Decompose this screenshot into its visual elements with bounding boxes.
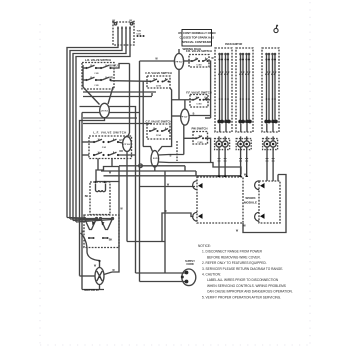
svg-text:CAN CAUSE IMPROPER AND DANGERO: CAN CAUSE IMPROPER AND DANGEROUS OPERATI… <box>207 290 293 294</box>
svg-text:WHEN SERVICING CONTROLS. WIRIN: WHEN SERVICING CONTROLS. WIRING PROBLEMS <box>207 284 286 288</box>
svg-text:C.F. VALVE SWITCH: C.F. VALVE SWITCH <box>145 120 171 124</box>
svg-text:GY: GY <box>119 139 123 142</box>
svg-text:FF VLV: FF VLV <box>181 117 188 119</box>
svg-text:F.F. VALVE SWITCH: F.F. VALVE SWITCH <box>186 90 211 94</box>
svg-text:SPARK: SPARK <box>245 196 256 200</box>
svg-text:W: W <box>211 57 214 60</box>
svg-text:CF VLV: CF VLV <box>124 144 132 146</box>
svg-text:C1 NO: C1 NO <box>196 65 202 67</box>
svg-text:DM: DM <box>98 277 101 279</box>
svg-text:2. REFER ONLY TO FEATURES EQU: 2. REFER ONLY TO FEATURES EQUIPPED. <box>202 261 267 265</box>
svg-text:BEFORE REMOVING WIRE COVER.: BEFORE REMOVING WIRE COVER. <box>207 255 261 259</box>
svg-text:BV: BV <box>113 20 116 22</box>
svg-text:1. DISCONNECT RANGE FROM POWE: 1. DISCONNECT RANGE FROM POWER <box>202 250 263 254</box>
svg-text:C NO: C NO <box>94 73 99 75</box>
svg-text:LR VLV: LR VLV <box>101 111 109 113</box>
svg-text:W: W <box>155 57 158 60</box>
svg-text:RJ: RJ <box>114 65 118 68</box>
svg-text:C.R. VALVE SWITCH: C.R. VALVE SWITCH <box>145 71 172 75</box>
svg-text:W: W <box>120 208 123 211</box>
svg-text:L.F. VALVE SWITCH: L.F. VALVE SWITCH <box>93 131 126 135</box>
svg-text:CORD: CORD <box>186 263 194 266</box>
svg-text:B: B <box>170 155 172 158</box>
svg-text:C1 NO: C1 NO <box>197 142 203 144</box>
svg-text:3. SERVICER PLEASE RETURN DIA: 3. SERVICER PLEASE RETURN DIAGRAM TO RAN… <box>202 267 283 271</box>
svg-text:L.R. VALVE SWITCH: L.R. VALVE SWITCH <box>85 58 111 62</box>
svg-text:W: W <box>94 265 97 268</box>
svg-text:W: W <box>109 172 112 175</box>
svg-text:LABEL ALL WIRES PRIOR TO DISCO: LABEL ALL WIRES PRIOR TO DISCONNECTION <box>207 278 279 282</box>
svg-text:CLOSED TOP SPARK HAS: CLOSED TOP SPARK HAS <box>180 36 215 40</box>
svg-text:W: W <box>236 230 239 233</box>
svg-text:ON CONT NORMALLY OPEN: ON CONT NORMALLY OPEN <box>178 31 215 35</box>
svg-text:C1 NO: C1 NO <box>156 85 162 87</box>
svg-text:OVEN IGNITOR: OVEN IGNITOR <box>225 43 243 46</box>
svg-text:PW SWITCH: PW SWITCH <box>191 127 207 131</box>
svg-text:TOD: TOD <box>137 31 142 33</box>
svg-text:NOTICE:: NOTICE: <box>198 244 211 248</box>
svg-text:C NO: C NO <box>94 85 99 87</box>
svg-text:CLK: CLK <box>137 33 142 35</box>
svg-text:C1 NO: C1 NO <box>196 104 202 106</box>
svg-text:BK: BK <box>85 195 89 198</box>
svg-text:MODULE: MODULE <box>244 201 257 205</box>
svg-text:4. CAUTION:: 4. CAUTION: <box>202 273 221 277</box>
svg-text:B VLV: B VLV <box>153 158 159 160</box>
svg-text:W: W <box>243 225 246 228</box>
svg-text:BK: BK <box>109 238 113 241</box>
svg-text:B: B <box>193 112 195 115</box>
svg-text:5. VERIFY PROPER OPERATION AF: 5. VERIFY PROPER OPERATION AFTER SERVICI… <box>202 295 281 299</box>
svg-text:MOTOR 11: MOTOR 11 <box>84 288 99 292</box>
svg-text:OR: OR <box>119 150 123 153</box>
svg-text:C NO: C NO <box>102 147 107 149</box>
svg-text:C1 NO: C1 NO <box>156 135 162 137</box>
svg-text:FR VLV: FR VLV <box>176 62 184 64</box>
svg-text:F.R. VALVE SWITCH: F.R. VALVE SWITCH <box>186 49 212 53</box>
svg-text:SPECIAL CONTINUED: SPECIAL CONTINUED <box>182 40 211 44</box>
svg-text:BU: BU <box>109 65 113 68</box>
svg-text:BR: BR <box>109 77 113 80</box>
